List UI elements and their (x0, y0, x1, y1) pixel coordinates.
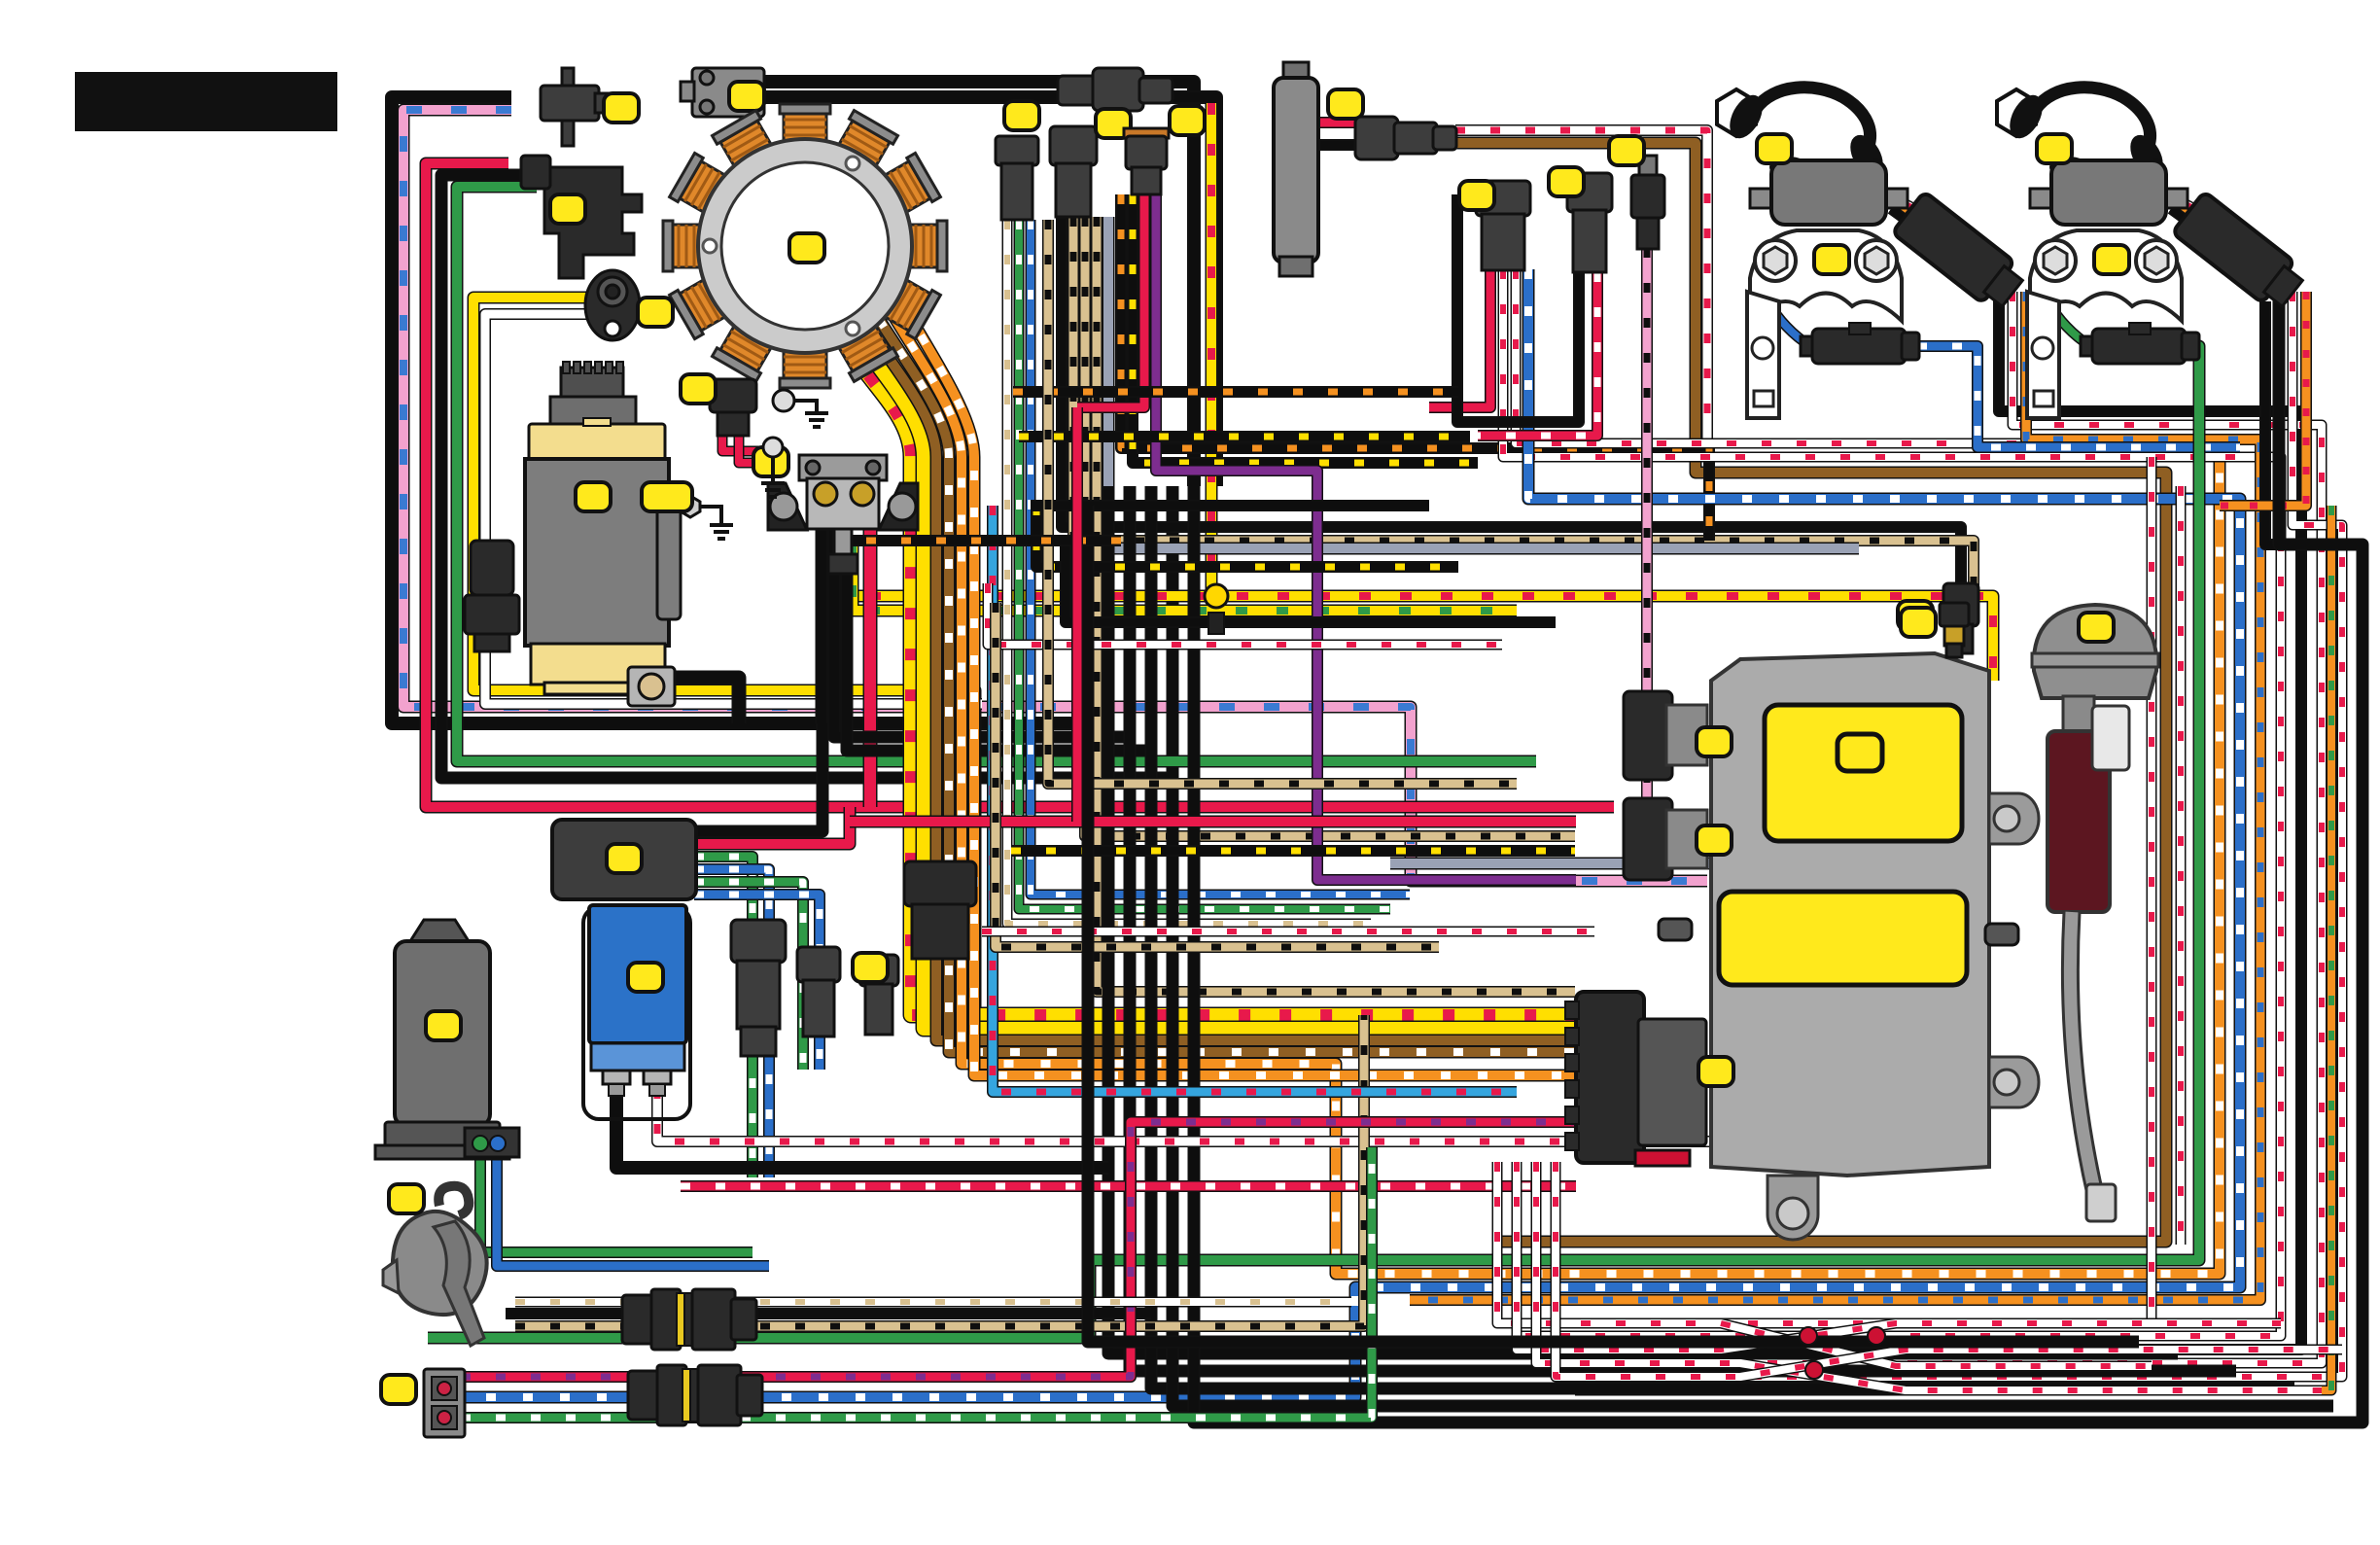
label mid connector (853, 953, 888, 982)
wire black solenoid 2 (834, 530, 1130, 737)
label solenoid (753, 447, 788, 476)
label timing sensor (638, 298, 673, 327)
junction (1205, 584, 1228, 608)
wire coil1 white diag (1881, 191, 1954, 229)
wire margin white/red A (1497, 457, 2152, 1323)
wire coil1 drop black (1517, 292, 2301, 1350)
wire C1 blue/white (1031, 220, 1410, 895)
wire mid black/yellow 583 (1036, 506, 1458, 567)
wire C4 blue long (461, 269, 2240, 1397)
connector C5 (1567, 173, 1612, 272)
wire C5 red/white (1478, 272, 1597, 436)
wire extra black/yellow 449 (1019, 431, 1470, 442)
wire C5 black (1457, 194, 1579, 422)
wire coil2 black diag (2171, 209, 2224, 248)
wire stator yellow (856, 334, 1580, 1029)
wire coil1 orange/red (1886, 199, 1949, 238)
label trim sender (389, 1184, 424, 1213)
label oil pump (426, 1011, 461, 1040)
wire coil1 drop white/red (1536, 292, 2322, 1363)
wire relay green/white 1 (694, 857, 752, 1177)
wire coil2 drop orange (2220, 292, 2306, 506)
wire twist white/red 3 (1536, 1162, 2322, 1390)
fuel pump (1274, 62, 1318, 276)
wire black CPS (441, 175, 1172, 778)
wire C3 black/orange (1121, 194, 1709, 541)
wire black trunk 4 (1172, 778, 2333, 1406)
wire 2pin green/white (461, 1147, 1372, 1418)
wire C2 tan 2 (1085, 217, 1575, 836)
wire black key harness A (392, 97, 1108, 723)
label stator (789, 233, 824, 263)
label C5 (1549, 167, 1584, 196)
wire C3 purple (1156, 194, 1576, 880)
label CPS (550, 194, 585, 224)
wire black/yellow mid (1011, 845, 1575, 857)
wire injector1 blue (1917, 346, 2240, 447)
wire mid black 520 (1031, 500, 1429, 511)
wire mid black 640 (1066, 544, 1556, 622)
ground bolt upper (773, 390, 828, 427)
wire C2 black (1062, 217, 1961, 593)
wire C2 tan 3 (1097, 217, 1575, 992)
wire C4 red (1429, 269, 1490, 407)
crank position sensor (521, 156, 642, 278)
wire black solenoid 1 (816, 530, 828, 723)
wire margin green/orange (1575, 506, 2331, 1390)
wire red CPS (426, 163, 1614, 807)
wire relay blue/white 2 (694, 895, 820, 1070)
wire 2pin red/purple (461, 1122, 1576, 1377)
wire injector2 green (428, 346, 2199, 1338)
wire black trunk 2 (1130, 486, 2236, 1371)
inline connector trim (622, 1289, 756, 1350)
wire white/red fuel line (1455, 130, 1707, 457)
wire twist white/red 4 (1556, 1162, 2342, 1377)
wire margin white/red C (2176, 486, 2187, 1245)
wire relay green/white 2 (694, 882, 803, 1070)
ignition coil coil2 (1997, 88, 2309, 418)
wire yellow/red solenoid trunk (839, 544, 1993, 681)
wire injector2 bracket green (2047, 301, 2090, 346)
temp sensor (1631, 156, 1664, 249)
wire pink/blue harness (403, 110, 1707, 881)
wire C4 white 1 (1503, 269, 2281, 1336)
label C1 (1004, 101, 1039, 130)
wire coil2 drop black (2265, 301, 2287, 544)
wire extra orange/black 403 (1013, 386, 1458, 398)
label fuel pump (1328, 89, 1363, 119)
wire orange/black mid (836, 535, 1121, 546)
water pressure relief valve (2032, 605, 2158, 1221)
wire black starter cable (671, 678, 739, 723)
rectifier/regulator (583, 905, 690, 1119)
wire black key to margin 1 (764, 82, 1194, 486)
wire coil2 orange/red (2166, 199, 2229, 238)
wire coil1 black diag (1891, 209, 1944, 248)
label rectifier (628, 963, 663, 992)
wire C2 gray (1108, 217, 1859, 548)
label coil1 coil label (1757, 134, 1792, 163)
wire red trunk B (850, 816, 1576, 828)
connector C4 (1476, 181, 1530, 270)
connector C1 (996, 136, 1038, 220)
label kill switch (729, 82, 764, 111)
wire C1 green/white (1019, 220, 1390, 909)
wire C4 white 2 (1516, 269, 2152, 443)
wire oil blue (497, 1147, 769, 1266)
label C2 (1096, 109, 1131, 138)
stator (663, 104, 947, 388)
wire white/tan trim (515, 1297, 1351, 1308)
wire black trunk 3 (1151, 486, 2294, 1388)
wire black fuel pump (1319, 139, 1355, 151)
wire stator yellow/red (844, 342, 1580, 1015)
wire stator brown 2 (879, 319, 1580, 1052)
wire cyan trunk (993, 506, 1517, 1092)
wire pink/black sensor (1641, 248, 1653, 881)
wire relay black (694, 723, 822, 831)
label starter B (642, 482, 692, 511)
connector C2 (1050, 126, 1097, 217)
connector big mid (904, 861, 976, 959)
2-pin connector (424, 1369, 465, 1437)
wire stator orange 1 (891, 311, 2220, 1274)
starter motor (525, 362, 733, 706)
title block (76, 73, 336, 130)
wire C2 tan 1 (1073, 217, 1974, 593)
wire brown fuel line (1455, 143, 2166, 1242)
wire twist white/red 2 (1517, 1162, 2281, 1350)
wire red solenoid cable (863, 506, 878, 807)
label C4 (1459, 181, 1494, 210)
connector below starter left (465, 541, 519, 651)
wire rectifier white/red (657, 1089, 1750, 1141)
temp sensor mid-right (1943, 583, 1978, 653)
inline connector key harness (1058, 68, 1172, 111)
wire black trunk 5 (1194, 292, 2362, 1422)
label sensor above ECM (1901, 608, 1936, 637)
wire black key to margin 2 (764, 97, 1216, 486)
label coil2 coil label (2037, 134, 2072, 163)
wire trim tan (515, 1015, 1364, 1326)
connector cluster mid-bottom (731, 920, 898, 1056)
wire mid tan 974 (996, 603, 1439, 947)
wire coil1 drop orange/blue (1410, 292, 2260, 1300)
label temp sensor (1609, 136, 1644, 165)
wire black mid v (1088, 506, 2139, 1342)
label relay (607, 844, 642, 873)
wire yellow/red key feed (1206, 103, 1218, 596)
label ECM conn2 label (1697, 825, 1732, 855)
label ECM conn1 label (1697, 727, 1732, 756)
label coil1 bracket label (1814, 245, 1849, 274)
wire green/red solenoid trunk (853, 544, 1517, 611)
wire tan extra (1048, 220, 1517, 784)
wire stator orange 2 (902, 303, 1580, 1075)
wire C3 red (1077, 194, 1144, 407)
ECM engine management module (1565, 653, 2039, 1240)
wire black trunk 1 (1108, 486, 2178, 1353)
wire black solenoid 3 (847, 530, 1151, 751)
label starter A (576, 482, 611, 511)
label top-left connector (604, 93, 639, 123)
wire coil2 white diag (2161, 191, 2234, 229)
kill switch (681, 68, 764, 117)
relay (552, 820, 696, 899)
sensor above ECM (1940, 603, 1969, 657)
wire relay red (694, 807, 850, 844)
connector top-left bulkhead (541, 68, 611, 146)
wire oil green (480, 1147, 752, 1252)
wire coil2 drop white/red (1556, 292, 2342, 1377)
label conn above solenoid (681, 374, 716, 404)
wire relay blue/white 1 (694, 869, 769, 1177)
wire stator brown 1 (867, 327, 1580, 1040)
wire white/red mid (982, 927, 1594, 937)
wire red connector drop 2 (739, 434, 784, 463)
connector above solenoid (710, 379, 756, 436)
wire gray ECM stub (1390, 858, 1851, 870)
wire trim black (506, 1308, 1151, 1319)
wire mid white/red 663 (988, 583, 1502, 645)
wire yellow timing (473, 298, 975, 1021)
wire injector1 bracket blue (1767, 301, 1810, 346)
ignition coil coil1 (1717, 88, 2029, 418)
label 2-pin (381, 1375, 416, 1404)
wire red vert C3ext (1071, 407, 1083, 822)
starter solenoid (768, 455, 918, 574)
wire rectifier black (616, 1089, 1108, 1168)
wire red connector drop 1 (722, 434, 778, 451)
wire C1 white/tan (1007, 220, 1371, 924)
inline connector 2pin (628, 1365, 762, 1425)
timing sensor (585, 270, 640, 340)
label ECM bottom label (1698, 1057, 1733, 1086)
wire twist white/red 1 (1497, 1162, 2152, 1366)
inline connector fuel (1355, 117, 1456, 159)
oil lift pump (375, 920, 519, 1159)
wire C3 yellow/red (1133, 194, 1478, 463)
label water pressure valve (2079, 613, 2114, 642)
wire white timing (485, 314, 982, 704)
twist junction dots (1800, 1327, 1817, 1345)
wire red fuel pump (1319, 117, 1355, 128)
ground symbol solenoid (761, 438, 785, 497)
trim position sender (383, 1186, 487, 1346)
wire green CPS (457, 187, 1536, 761)
label inline key (1170, 106, 1205, 135)
wire red/white lower (681, 1180, 1576, 1192)
connector C3 (1124, 128, 1169, 194)
label temp sensor mid-right (1898, 601, 1933, 630)
label coil2 bracket label (2094, 245, 2129, 274)
